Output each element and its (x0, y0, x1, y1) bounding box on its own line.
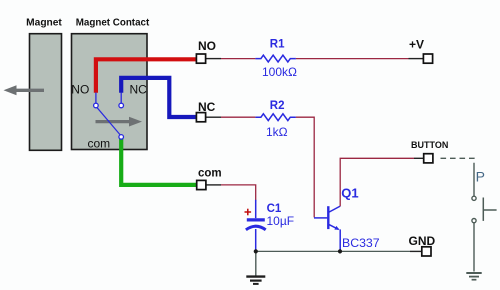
label R1 (270, 38, 285, 50)
label Magnet (26, 18, 62, 29)
terminal BUTTON square (424, 154, 433, 163)
contact circle NO (94, 103, 99, 108)
label Q1 (341, 185, 358, 200)
junction dot emitter/gnd (338, 249, 342, 253)
label 10uF (267, 214, 295, 228)
label BUTTON (411, 140, 448, 150)
label +V (409, 38, 424, 52)
contact circle com (119, 135, 124, 140)
terminal +V lead (409, 58, 424, 60)
terminal +V square (423, 54, 432, 63)
contact motion arrow (right) (96, 117, 143, 127)
label R2 (270, 100, 285, 112)
wire net NC thin red (221, 116, 255, 118)
wire dashed to pushbutton (441, 158, 475, 167)
wire R1 to +V thin red (296, 58, 409, 60)
svg-text:Magnet Contact: Magnet Contact (76, 18, 150, 29)
capacitor C1 plus sign (245, 209, 252, 216)
terminal NC square (196, 113, 205, 122)
terminal BUTTON lead (414, 157, 424, 159)
label Magnet Contact (76, 18, 150, 29)
svg-text:com: com (198, 167, 222, 179)
label com (terminal) (198, 167, 222, 179)
svg-text:+V: +V (409, 38, 424, 52)
svg-text:R2: R2 (270, 100, 285, 112)
label P (476, 168, 485, 184)
label NC (inside contact) (130, 83, 148, 97)
terminal NC lead (206, 116, 221, 118)
wire NC thick blue (121, 78, 196, 117)
label BC337 (342, 236, 380, 250)
magnet motion arrow (left) (4, 85, 45, 95)
terminal com lead (206, 184, 221, 186)
wire net NO thin red (221, 58, 255, 60)
wire NO thick red (96, 59, 196, 93)
magnet body (30, 34, 62, 151)
svg-text:NO: NO (71, 83, 89, 97)
svg-text:10µF: 10µF (267, 214, 295, 228)
svg-text:BUTTON: BUTTON (411, 140, 448, 150)
capacitor C1 (246, 200, 266, 250)
contact circle NC (119, 103, 124, 108)
svg-text:NC: NC (130, 83, 148, 97)
wire to ground symbol (255, 251, 257, 276)
wire NO stub to contact (95, 93, 97, 104)
junction dot C1/gnd (254, 249, 258, 253)
label com (inside contact) (88, 136, 111, 150)
label NO (terminal) (198, 39, 216, 53)
svg-text:BC337: BC337 (342, 236, 380, 250)
svg-text:Magnet: Magnet (26, 18, 62, 29)
label GND (409, 234, 436, 248)
resistor R1 (255, 55, 296, 62)
svg-text:NO: NO (198, 39, 216, 53)
ground (pushbutton) (466, 273, 481, 280)
label NC (terminal) (198, 100, 216, 114)
wire NC stub to contact (120, 93, 122, 104)
svg-text:R1: R1 (270, 38, 285, 50)
pushbutton P (472, 168, 497, 272)
svg-text:GND: GND (409, 234, 436, 248)
terminal GND square (422, 247, 431, 256)
label 100kOhm (262, 65, 297, 79)
svg-text:1kΩ: 1kΩ (266, 125, 288, 139)
switch blade (97, 107, 121, 135)
wire ground net (256, 250, 410, 252)
label NO (inside contact) (71, 83, 89, 97)
wire com to C1 thin red (221, 185, 256, 201)
ground (main) (246, 277, 265, 284)
svg-text:P: P (476, 168, 485, 184)
label 1kOhm (266, 125, 288, 139)
terminal NO square (196, 54, 205, 63)
wire R2 to base thin red (296, 117, 314, 217)
svg-text:com: com (88, 136, 111, 150)
wire collector to BUTTON thin red (340, 158, 414, 206)
resistor R2 (255, 114, 296, 121)
terminal GND lead (410, 250, 422, 252)
label C1 (267, 203, 282, 215)
magnet contact body (72, 34, 148, 150)
terminal com square (197, 180, 206, 189)
wire com thick green (121, 139, 196, 185)
terminal NO lead (206, 58, 221, 60)
svg-text:Q1: Q1 (341, 185, 358, 200)
svg-text:100kΩ: 100kΩ (262, 65, 297, 79)
transistor Q1 (314, 206, 340, 250)
